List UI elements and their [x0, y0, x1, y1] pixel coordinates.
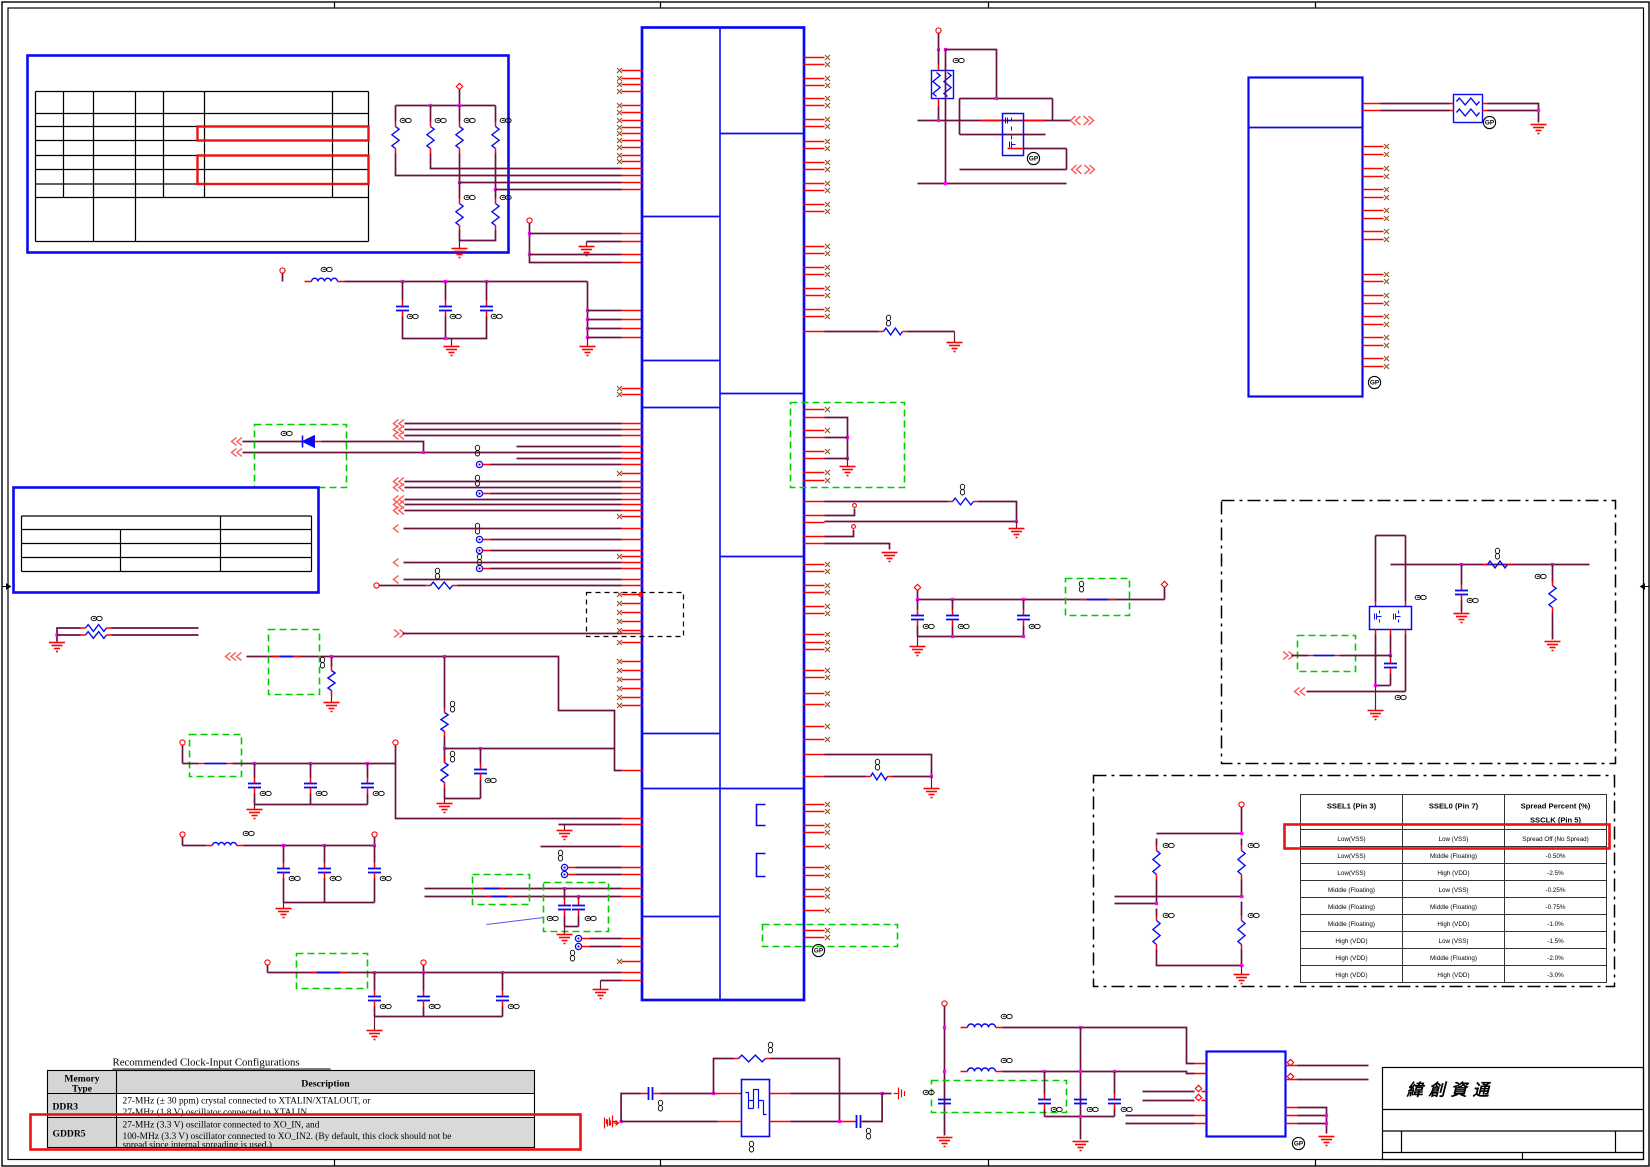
pin [622, 770, 643, 772]
resistor R71 [1241, 846, 1243, 851]
wire [825, 331, 879, 333]
wire [1488, 104, 1539, 123]
capacitor C374 [374, 846, 376, 863]
no-connect x [617, 628, 622, 633]
wire [918, 120, 1072, 122]
pin [622, 473, 643, 475]
pin [1363, 146, 1384, 148]
wire [530, 224, 622, 263]
pin [770, 1093, 791, 1095]
no-connect x [617, 640, 622, 645]
junction [620, 1120, 623, 1123]
wire [483, 550, 491, 552]
pin [804, 501, 825, 503]
wire [1381, 103, 1450, 105]
testpoint [575, 943, 581, 949]
no-connect x [617, 610, 622, 615]
wire mid [1157, 896, 1244, 898]
wire [1241, 839, 1243, 846]
svg-text:Middle (Floating): Middle (Floating) [1328, 921, 1375, 928]
svg-text:GP: GP [1485, 120, 1495, 127]
wire [959, 99, 961, 135]
no-connect x [825, 724, 830, 729]
junction [253, 762, 256, 765]
jumper [487, 896, 492, 898]
svg-text:27-MHz (3.3 V) oscillator conn: 27-MHz (3.3 V) oscillator connected to X… [123, 1120, 320, 1131]
wire [1024, 148, 1067, 150]
no-connect x [1384, 272, 1389, 277]
refdes [1395, 695, 1406, 699]
pin [1363, 189, 1384, 191]
wire [1080, 1028, 1082, 1140]
no-connect x [1384, 279, 1389, 284]
resistor R60 [1483, 564, 1488, 566]
callout line [487, 918, 544, 925]
capacitor C61 [1461, 565, 1463, 585]
pin [622, 661, 643, 663]
wire [587, 282, 589, 338]
GP flag [1292, 1137, 1304, 1149]
refdes [1467, 598, 1478, 602]
pin [622, 487, 643, 489]
wire [423, 966, 425, 973]
clock symbol [605, 1118, 619, 1129]
pin [1363, 281, 1384, 283]
ground [882, 553, 898, 562]
refdes [316, 791, 327, 795]
ground [1531, 125, 1547, 134]
pin [804, 825, 825, 827]
junction [55, 633, 58, 636]
refdes [429, 1004, 440, 1008]
pin [804, 148, 825, 150]
resistor R41 [331, 666, 333, 671]
capacitor C423 [423, 973, 425, 991]
no-connect x [617, 668, 622, 673]
pin [804, 634, 825, 636]
no-connect x [825, 691, 830, 696]
refdes Y1 [749, 1141, 753, 1152]
no-connect x [825, 139, 830, 144]
junction [937, 48, 940, 51]
wire [112, 634, 199, 636]
wire bus [396, 105, 496, 107]
wire [944, 1007, 946, 1136]
junction [323, 844, 326, 847]
wire [459, 183, 461, 199]
svg-text:緯創資通: 緯創資通 [1406, 1081, 1495, 1100]
no-connect x [825, 272, 830, 277]
refdes [953, 58, 964, 62]
wire [1298, 1065, 1369, 1067]
U1 bracket [757, 854, 766, 877]
pin [622, 539, 643, 541]
U1 section line [720, 556, 804, 558]
power pin VDD [456, 83, 462, 89]
refdes [1248, 843, 1259, 847]
refdes [475, 523, 479, 534]
capacitor C82 [1074, 1100, 1087, 1104]
pin [804, 316, 825, 318]
pin [622, 846, 643, 848]
junction [1079, 1115, 1082, 1118]
pin [622, 633, 643, 635]
no-connect x [1384, 187, 1389, 192]
pin [622, 78, 643, 80]
pin [1363, 358, 1384, 360]
pin [1405, 602, 1407, 607]
wire R33 down [495, 154, 497, 190]
wire [1003, 1072, 1195, 1074]
pin [1363, 110, 1381, 112]
wire [960, 98, 1053, 100]
wire [405, 423, 622, 425]
stub [1115, 903, 1157, 905]
pin [622, 818, 643, 820]
wire to pin [460, 182, 622, 184]
junction [943, 1070, 946, 1073]
no-connect x [825, 265, 830, 270]
crystal Y1 [742, 1080, 770, 1137]
junction [846, 457, 849, 460]
no-connect x [825, 181, 830, 186]
no-connect x [825, 55, 830, 60]
wire [1375, 635, 1377, 686]
junction [401, 280, 404, 283]
resistor R75 [734, 1058, 739, 1060]
capacitor C81 [1044, 1072, 1046, 1094]
pin [622, 688, 643, 690]
pin [622, 670, 643, 672]
svg-text:Middle (Floating): Middle (Floating) [1328, 904, 1375, 911]
pin [622, 155, 643, 157]
no-connect x [825, 611, 830, 616]
wire [918, 183, 1067, 185]
pin table grid [36, 92, 369, 242]
wire [979, 502, 1017, 522]
no-connect x [617, 619, 622, 624]
no-connect x [825, 244, 830, 249]
green group box [473, 875, 530, 905]
refdes [464, 195, 475, 199]
wire to pin [588, 337, 622, 339]
border tick bottom [334, 1160, 336, 1167]
pin [1363, 345, 1384, 347]
wire to pin [496, 189, 622, 191]
capacitor C402 [402, 282, 404, 301]
no-connect x [1384, 335, 1389, 340]
svg-text:-3.0%: -3.0% [1547, 972, 1564, 979]
no-connect x [825, 146, 830, 151]
svg-text:High (VDD): High (VDD) [1437, 921, 1469, 928]
junction [528, 232, 531, 235]
capacitor C486 [486, 282, 488, 301]
pin [622, 189, 643, 191]
U1 section line [720, 133, 804, 135]
ground stem [586, 242, 588, 247]
refdes [875, 759, 879, 770]
junction [1551, 563, 1554, 566]
ground [947, 343, 963, 352]
off-page connector [394, 420, 405, 428]
wire [908, 331, 955, 333]
no-connect x [825, 407, 830, 412]
title underline [113, 1068, 331, 1070]
wire [396, 764, 622, 819]
pin [622, 388, 643, 390]
clock input symbol [607, 1116, 618, 1128]
junction [1015, 520, 1018, 523]
wire [825, 521, 1017, 523]
pin [804, 910, 825, 912]
testpoint [476, 536, 482, 542]
U1 section line [720, 393, 804, 395]
refdes [435, 118, 446, 122]
wire [374, 838, 376, 846]
no-connect x [825, 894, 830, 899]
pin [622, 697, 643, 699]
refdes [407, 314, 418, 318]
refdes [330, 876, 341, 880]
junction [995, 97, 998, 100]
pin [1195, 1073, 1207, 1075]
power pin [936, 28, 941, 33]
wire [405, 504, 622, 506]
testpoint [561, 864, 567, 870]
no-connect x [1384, 174, 1389, 179]
junction [330, 655, 333, 658]
wire [1488, 110, 1539, 112]
pin [1363, 337, 1384, 339]
pin [1483, 103, 1488, 105]
pin [804, 585, 825, 587]
refdes [960, 484, 964, 495]
pin [804, 451, 825, 453]
no-connect x [825, 167, 830, 172]
refdes [289, 876, 300, 880]
pin [1195, 1123, 1207, 1125]
no-connect x [825, 251, 830, 256]
pin [1363, 218, 1384, 220]
ground [1073, 1142, 1089, 1151]
pin [622, 980, 643, 982]
junction [577, 895, 580, 898]
wire [882, 1093, 891, 1095]
ground [1234, 975, 1250, 984]
no-connect x [825, 209, 830, 214]
border tick top [1315, 2, 1317, 8]
power pin [180, 832, 185, 837]
refdes [1121, 1107, 1132, 1111]
pin [804, 480, 825, 482]
pin [804, 811, 825, 813]
pin [804, 754, 825, 756]
wire [825, 437, 848, 439]
junction [422, 971, 425, 974]
junction [586, 309, 589, 312]
capacitor C60 [1390, 656, 1392, 658]
nc circle [853, 504, 857, 508]
refdes [500, 195, 511, 199]
ground [924, 789, 940, 798]
wire bus [403, 331, 487, 339]
junction [309, 762, 312, 765]
junction [943, 1026, 946, 1029]
wire [495, 106, 497, 122]
wire [395, 106, 397, 122]
pin [1286, 1065, 1298, 1067]
junction [1240, 832, 1243, 835]
no-connect x [617, 386, 622, 391]
ground stem [564, 825, 566, 831]
wire [1307, 691, 1406, 693]
power pin [1239, 802, 1244, 807]
green group box [190, 735, 242, 777]
no-connect x [825, 908, 830, 913]
mosfet Q2 pack [1370, 607, 1412, 630]
off-page connector [394, 501, 405, 509]
pin [622, 182, 643, 184]
refdes [958, 624, 969, 628]
pin [804, 930, 825, 932]
ground stem [600, 981, 602, 990]
svg-text:Type: Type [72, 1084, 93, 1095]
power pin [372, 832, 377, 837]
pin [1363, 231, 1384, 233]
pin [804, 649, 825, 651]
power pin [374, 583, 379, 588]
pin [1405, 630, 1407, 635]
pin [622, 262, 643, 264]
pin [622, 499, 643, 501]
junction [458, 181, 461, 184]
no-connect x [825, 823, 830, 828]
pin [804, 937, 825, 939]
wire to pin [588, 310, 622, 312]
U1 section line [642, 788, 804, 790]
pin [622, 423, 643, 425]
ground [1319, 1137, 1335, 1146]
pin [981, 120, 1003, 122]
no-connect x [825, 449, 830, 454]
junction [1113, 1070, 1116, 1073]
power pin [393, 740, 398, 745]
refdes [380, 876, 391, 880]
wire [1381, 110, 1450, 112]
no-connect x [825, 675, 830, 680]
refdes [768, 1042, 772, 1053]
pin [804, 458, 825, 460]
pin [804, 141, 825, 143]
pin [804, 543, 825, 545]
svg-text:SSEL0 (Pin 7): SSEL0 (Pin 7) [1429, 802, 1479, 811]
refdes [585, 916, 596, 920]
no-connect x [617, 110, 622, 115]
pin [622, 946, 643, 948]
pin [804, 776, 825, 778]
wire [582, 946, 590, 948]
pin [622, 161, 643, 163]
refdes [866, 1128, 870, 1139]
jumper [311, 972, 317, 974]
wire anode [243, 441, 303, 443]
refdes [485, 778, 496, 782]
border tick bottom [660, 1160, 662, 1167]
svg-text:Middle (Floating): Middle (Floating) [1430, 853, 1477, 860]
pin [1375, 602, 1377, 607]
svg-text:High (VDD): High (VDD) [1335, 972, 1367, 979]
no-connect x [825, 928, 830, 933]
junction [1022, 598, 1025, 601]
stub [1115, 896, 1157, 898]
no-connect x [1384, 152, 1389, 157]
wire [1066, 149, 1068, 170]
wire [1390, 635, 1392, 656]
ground [49, 643, 65, 652]
wire [267, 966, 269, 973]
pin [804, 183, 825, 185]
refdes [1163, 843, 1174, 847]
capacitor C502 [502, 973, 504, 991]
junction [444, 280, 447, 283]
refdes [1079, 581, 1083, 592]
wire bus [244, 845, 375, 847]
pin [804, 331, 825, 333]
refdes [450, 701, 454, 712]
no-connect x [825, 590, 830, 595]
wire [483, 539, 491, 541]
refdes [923, 624, 934, 628]
wire to pin [588, 328, 622, 330]
wire [825, 418, 848, 459]
wire [1375, 536, 1377, 602]
inductor L11 [206, 845, 213, 847]
pin [804, 670, 825, 672]
pin [804, 78, 825, 80]
wire [601, 980, 622, 982]
pin [1363, 239, 1384, 241]
no-connect x [825, 314, 830, 319]
ground [937, 1138, 953, 1147]
green group box [255, 425, 347, 488]
ground stem [931, 777, 933, 789]
wire [57, 634, 81, 636]
ground stem [283, 903, 285, 909]
refdes [243, 831, 254, 835]
no-connect x [617, 89, 622, 94]
svg-text:High (VDD): High (VDD) [1335, 955, 1367, 962]
wire [182, 746, 184, 764]
refdes [1535, 574, 1546, 578]
capacitor C324 [324, 846, 326, 863]
svg-text:Low (VSS): Low (VSS) [1438, 938, 1468, 945]
wire to pin [530, 254, 622, 256]
ground stem [1375, 686, 1377, 711]
wire [576, 874, 622, 876]
wire [568, 867, 576, 869]
junction [1374, 684, 1377, 687]
wire [917, 591, 919, 600]
wire [590, 938, 622, 940]
wire [1156, 880, 1158, 904]
wire bus [345, 281, 588, 283]
green group box [763, 925, 898, 947]
svg-text:Low(VSS): Low(VSS) [1337, 870, 1365, 877]
ground [579, 247, 595, 256]
wire [825, 501, 948, 503]
wire [771, 1059, 840, 1122]
capacitor C44 [480, 749, 482, 764]
